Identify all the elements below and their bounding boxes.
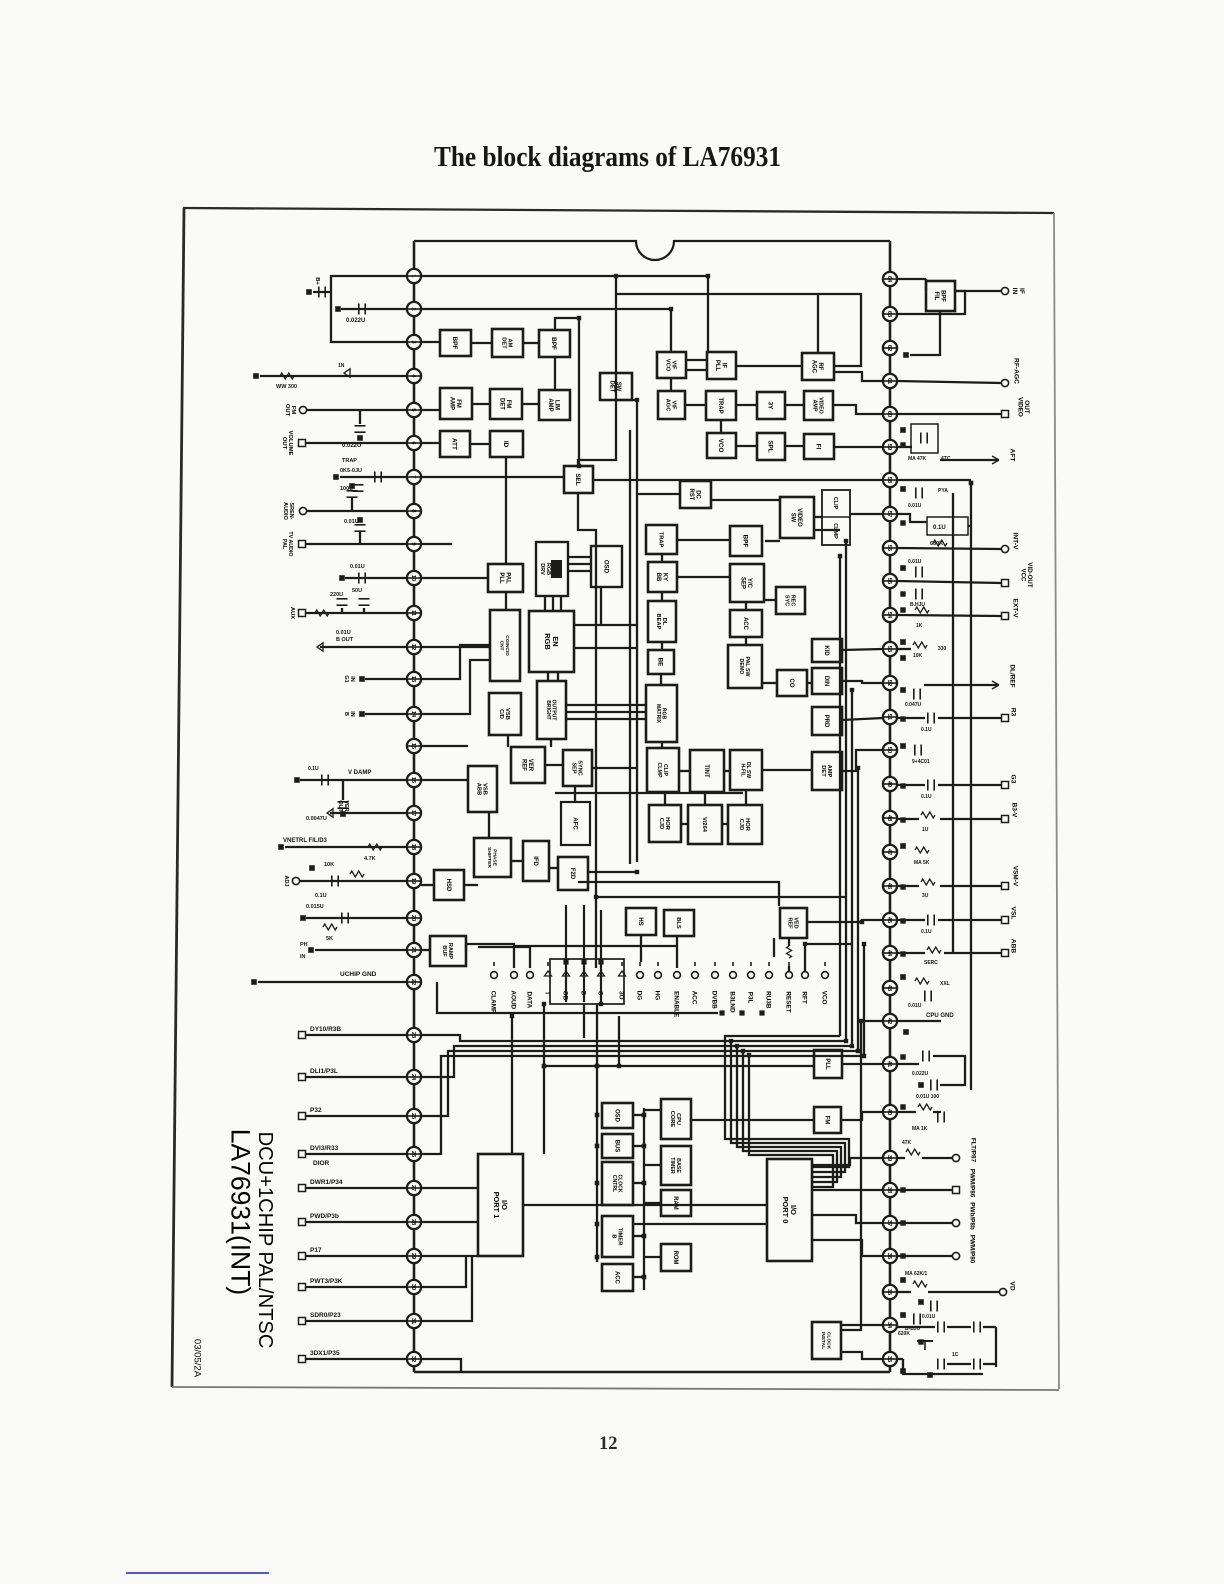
- wire: [814, 516, 822, 518]
- wire: [300, 880, 407, 882]
- wire: [925, 279, 927, 291]
- svg-text:V/264: V/264: [701, 817, 707, 833]
- pin 41: [883, 1057, 897, 1071]
- terminal open-square: [299, 1318, 306, 1325]
- wire: [313, 291, 331, 293]
- IC bottom edge: [414, 1371, 890, 1374]
- svg-text:VSM-V: VSM-V: [1012, 866, 1019, 887]
- svg-text:KID: KID: [823, 645, 829, 656]
- block BUS: [602, 1134, 633, 1158]
- terminal square: [595, 1064, 599, 1068]
- svg-text:0.1U: 0.1U: [315, 893, 327, 899]
- terminal square: [340, 576, 345, 581]
- svg-text:AGC: AGC: [664, 399, 670, 412]
- wire: [745, 637, 747, 645]
- svg-text:ABB: ABB: [475, 783, 481, 795]
- wire: [679, 770, 690, 772]
- pin stub: [407, 846, 421, 848]
- terminal circle: [511, 972, 518, 979]
- wire: [345, 577, 407, 579]
- svg-text:MA 62K/1: MA 62K/1: [905, 1271, 928, 1277]
- pin stub: [883, 1063, 897, 1065]
- resistor: [368, 844, 382, 850]
- terminal square: [901, 1278, 906, 1283]
- terminal square: [336, 307, 341, 312]
- svg-text:KY: KY: [662, 573, 668, 581]
- svg-text:PAL: PAL: [281, 539, 287, 550]
- wire: [897, 1111, 916, 1113]
- svg-text:TRAP: TRAP: [717, 397, 723, 413]
- arrow: [317, 643, 323, 651]
- terminal stub: [694, 962, 696, 966]
- capacitor: [937, 1322, 939, 1333]
- wire: [633, 1145, 644, 1147]
- svg-text:ATT: ATT: [451, 438, 458, 450]
- terminal open-square: [299, 1219, 306, 1226]
- svg-text:REF: REF: [521, 759, 527, 771]
- wire: [615, 276, 617, 400]
- capacitor: [937, 1112, 939, 1123]
- svg-text:BUF: BUF: [441, 945, 447, 957]
- pin 45: [883, 913, 897, 927]
- wire: [505, 457, 507, 564]
- pin 6: [407, 436, 421, 450]
- wire: [952, 493, 954, 953]
- pin stub: [407, 1255, 421, 1257]
- pin stub: [407, 713, 421, 715]
- svg-text:100U: 100U: [340, 486, 353, 492]
- pin 62: [883, 341, 897, 355]
- terminal circle: [527, 972, 534, 979]
- terminal square: [860, 920, 863, 923]
- block ATT: [440, 431, 470, 457]
- terminal circle: [1001, 545, 1008, 552]
- block EN RGB: [529, 611, 574, 672]
- pin 5: [407, 403, 421, 417]
- wire: [633, 1182, 644, 1184]
- wire: [592, 767, 637, 769]
- svg-text:CJD: CJD: [658, 818, 664, 829]
- svg-text:Y/C: Y/C: [746, 578, 752, 589]
- block PRD: [812, 707, 842, 735]
- svg-text:AFC: AFC: [571, 817, 578, 830]
- svg-text:DRV: DRV: [539, 563, 545, 575]
- block CLOCK CNTRL: [602, 1162, 633, 1205]
- pin stub: [883, 682, 897, 684]
- svg-text:PWb/P8b: PWb/P8b: [969, 1202, 976, 1230]
- capacitor: [973, 1359, 975, 1370]
- pin stub: [407, 409, 421, 411]
- svg-text:CLMP: CLMP: [832, 523, 838, 539]
- arrow: [545, 971, 552, 976]
- svg-text:PORT 1: PORT 1: [492, 1192, 501, 1219]
- wire: [814, 529, 840, 531]
- pin 39: [883, 1151, 897, 1165]
- wire: [421, 884, 434, 886]
- pin63 to IF IN node: [897, 291, 965, 314]
- wire: [629, 430, 631, 864]
- svg-text:ADJ: ADJ: [283, 875, 289, 886]
- svg-text:0.01U 100: 0.01U 100: [916, 1094, 939, 1100]
- terminal square: [928, 1373, 933, 1378]
- pin 22: [407, 975, 421, 989]
- terminal square: [614, 274, 617, 277]
- terminal square: [334, 475, 339, 480]
- capacitor: [930, 1301, 932, 1312]
- block OSD2: [591, 546, 622, 587]
- wire SW DET to SEL: [578, 400, 616, 466]
- terminal square: [901, 885, 905, 889]
- svg-text:0.1U: 0.1U: [308, 766, 319, 772]
- wire: [633, 1276, 644, 1278]
- terminal square: [617, 1064, 620, 1067]
- block VIF VCO: [657, 352, 686, 378]
- pin stub: [407, 1320, 421, 1322]
- wire: [842, 649, 883, 650]
- svg-text:RFT: RFT: [801, 991, 808, 1003]
- pin 60: [883, 407, 897, 421]
- pin stub: [407, 577, 421, 579]
- wire: [342, 780, 344, 800]
- svg-text:VCO: VCO: [821, 991, 828, 1005]
- svg-text:DET: DET: [820, 765, 826, 777]
- svg-text:SEP: SEP: [571, 762, 577, 773]
- terminal circle: [491, 972, 498, 979]
- wire: [566, 711, 646, 713]
- block ACC: [602, 1264, 633, 1291]
- IC right rail: [889, 241, 892, 1372]
- terminal square: [901, 1221, 905, 1225]
- svg-text:RGB: RGB: [543, 633, 552, 650]
- wire loop y294: [616, 294, 861, 366]
- pin stub: [883, 1020, 897, 1022]
- block ID: [490, 431, 523, 457]
- pin 26: [407, 1147, 421, 1161]
- svg-text:BPF: BPF: [940, 290, 946, 302]
- block VER REF: [511, 747, 545, 783]
- wire: [922, 1157, 952, 1159]
- pin stub: [407, 1221, 421, 1223]
- wire: [285, 846, 407, 848]
- svg-text:12: 12: [599, 1434, 618, 1454]
- bus hooks to I/O PORT 0: [731, 1041, 846, 1172]
- wire: [568, 556, 591, 558]
- pin 44: [883, 946, 897, 960]
- svg-text:DY10/R3B: DY10/R3B: [310, 1026, 341, 1033]
- terminal square: [901, 1105, 905, 1109]
- svg-text:VOLUME: VOLUME: [287, 431, 293, 456]
- svg-text:TIMER: TIMER: [669, 1157, 675, 1174]
- block SW DET: [600, 373, 632, 400]
- wire: [785, 404, 804, 406]
- block CLIP CLMP: [647, 748, 679, 792]
- terminal square: [599, 1002, 602, 1005]
- svg-text:ABB: ABB: [1010, 939, 1017, 954]
- block RAMP BUF: [430, 936, 466, 966]
- wire: [745, 790, 747, 805]
- terminal stub: [565, 958, 567, 966]
- gnd trace line: [437, 982, 718, 1013]
- svg-text:DIN: DIN: [823, 676, 829, 686]
- terminal open-square: [299, 1032, 306, 1039]
- wire: [661, 642, 663, 650]
- block TRAP: [706, 391, 736, 420]
- block F2D: [558, 857, 588, 890]
- svg-text:ID: ID: [502, 441, 509, 448]
- svg-text:PH: PH: [300, 942, 308, 948]
- svg-text:FM: FM: [290, 406, 296, 415]
- terminal square: [595, 1181, 599, 1185]
- svg-text:PWT3/P3K: PWT3/P3K: [310, 1278, 343, 1285]
- wire: [686, 369, 707, 371]
- pin stub: [883, 513, 897, 515]
- wire: [940, 459, 999, 461]
- pin 8: [407, 504, 421, 518]
- resistor: [913, 642, 927, 648]
- pin 35: [883, 1285, 897, 1299]
- pin stub: [407, 510, 421, 512]
- svg-text:DIOR: DIOR: [313, 1160, 330, 1167]
- pin 53: [883, 642, 897, 656]
- wire: [788, 966, 790, 971]
- pin 36: [883, 1249, 897, 1263]
- pin stub: [883, 1189, 897, 1191]
- terminal square: [844, 539, 847, 542]
- terminal square: [901, 1188, 905, 1192]
- terminal square: [838, 554, 841, 557]
- wire: [897, 648, 911, 650]
- wire: [691, 1119, 814, 1121]
- terminal square: [577, 316, 580, 319]
- wire pin14 to COINCID: [421, 660, 490, 714]
- capacitor: [922, 1051, 924, 1062]
- svg-text:0K5-0JU: 0K5-0JU: [340, 468, 362, 474]
- arrow: [327, 809, 333, 817]
- wire: [765, 540, 780, 542]
- svg-text:BRIGHT: BRIGHT: [545, 700, 551, 720]
- pin stub: [883, 987, 897, 989]
- wire: [544, 596, 546, 611]
- svg-text:The block diagrams of LA76931: The block diagrams of LA76931: [434, 142, 781, 173]
- svg-text:0.01U: 0.01U: [922, 1314, 936, 1320]
- pin 38: [883, 1183, 897, 1197]
- pin 15: [407, 739, 421, 753]
- capacitor: [920, 433, 922, 444]
- wire: [633, 1223, 767, 1225]
- terminal circle: [822, 972, 829, 979]
- svg-text:FLT/P87: FLT/P87: [970, 1138, 977, 1163]
- pin 10: [407, 571, 421, 585]
- wire: [306, 612, 407, 614]
- block KY BB: [648, 562, 677, 592]
- svg-text:0.01U: 0.01U: [344, 519, 359, 525]
- svg-text:VNETRL FIL/D3: VNETRL FIL/D3: [283, 838, 328, 844]
- wire BPF loop to SEL: [555, 318, 579, 466]
- block HOR CJD: [728, 805, 762, 844]
- wire: [897, 446, 912, 448]
- trunk vertical x637: [616, 400, 637, 862]
- arrow: [563, 971, 570, 976]
- pin stub: [407, 880, 421, 882]
- svg-text:ROM: ROM: [672, 1251, 678, 1265]
- block BE: [648, 650, 674, 674]
- wire: [897, 615, 1001, 616]
- resistor: [927, 947, 941, 953]
- pin 42: [883, 1014, 897, 1028]
- pin 49: [883, 777, 897, 791]
- wire: [574, 786, 576, 802]
- svg-text:0.1U: 0.1U: [921, 929, 932, 935]
- terminal square: [510, 1014, 513, 1017]
- svg-text:0.022U: 0.022U: [346, 318, 365, 324]
- terminal square: [735, 1044, 738, 1047]
- terminal square: [642, 1181, 646, 1185]
- pin stub: [883, 380, 897, 382]
- svg-text:LA76931(INT): LA76931(INT): [225, 1129, 255, 1295]
- wire: [505, 592, 507, 610]
- svg-text:P32: P32: [310, 1107, 322, 1114]
- wire RF AGC to pin 61: [834, 372, 883, 381]
- terminal square: [901, 744, 906, 749]
- block FM DET: [490, 389, 522, 419]
- svg-text:SDR0/P23: SDR0/P23: [310, 1312, 341, 1319]
- svg-text:B3LND: B3LND: [729, 991, 736, 1013]
- terminal open-square: [299, 440, 306, 447]
- svg-text:B: B: [610, 1234, 616, 1238]
- svg-text:WW 300: WW 300: [276, 384, 297, 390]
- wire: [839, 556, 841, 1036]
- terminal circle: [292, 877, 299, 884]
- pin 55: [883, 574, 897, 588]
- pin stub: [883, 547, 897, 549]
- pin stub: [407, 375, 421, 377]
- wire: [720, 420, 722, 433]
- svg-text:BPF: BPF: [742, 535, 749, 548]
- wire: [938, 784, 1001, 786]
- capacitor: [937, 1359, 939, 1370]
- wire: [306, 1187, 407, 1189]
- wire: [633, 1235, 644, 1237]
- wire: [845, 541, 847, 1041]
- trunk vertical x596: [578, 493, 596, 968]
- wire: [897, 381, 1001, 383]
- pin 47: [883, 845, 897, 859]
- block BLS: [664, 910, 694, 936]
- terminal stub: [732, 962, 734, 966]
- wire: [421, 341, 440, 343]
- wire: [924, 684, 999, 686]
- terminal circle: [786, 972, 793, 979]
- svg-text:HOR: HOR: [744, 818, 750, 832]
- IC package outline top edge with notch: [414, 241, 890, 260]
- wire: [306, 1115, 407, 1117]
- block SEL: [564, 466, 593, 493]
- svg-text:AMP: AMP: [812, 400, 818, 412]
- pin stub: [407, 981, 421, 983]
- block PLL: [814, 1050, 842, 1078]
- pin 19: [407, 874, 421, 888]
- terminal stub: [547, 962, 549, 966]
- connector box: [550, 959, 624, 1004]
- wire: [955, 290, 1001, 292]
- terminal open-square: [1002, 883, 1009, 890]
- wire: [421, 949, 430, 951]
- block I/O PORT 1: [478, 1154, 523, 1256]
- terminal circle: [952, 1154, 959, 1161]
- terminal circle: [655, 972, 662, 979]
- wire: [897, 1291, 911, 1293]
- terminal stub: [493, 962, 495, 966]
- pin stub: [883, 648, 897, 650]
- arrow: [598, 971, 605, 976]
- svg-text:DET: DET: [500, 337, 506, 349]
- block VSB ABB: [468, 766, 497, 812]
- capacitor: [374, 472, 376, 483]
- wire: [421, 442, 440, 444]
- svg-text:IF: IF: [1018, 288, 1025, 294]
- wire: [704, 792, 706, 805]
- resistor: [918, 1104, 932, 1110]
- pin 20: [407, 911, 421, 925]
- terminal square: [862, 942, 865, 945]
- pin 57: [883, 507, 897, 521]
- terminal open-square: [299, 1356, 306, 1363]
- resistor: [933, 540, 947, 546]
- svg-text:HSD: HSD: [445, 879, 451, 892]
- terminal square: [642, 1234, 646, 1238]
- wire: [773, 938, 775, 957]
- terminal open-square: [1002, 613, 1009, 620]
- pin 56: [883, 541, 897, 555]
- wire: [928, 1291, 999, 1293]
- svg-text:AOUD: AOUD: [510, 990, 517, 1009]
- wire: [983, 1363, 996, 1365]
- terminal square: [901, 656, 906, 661]
- pin 9: [407, 537, 421, 551]
- wire: [897, 1189, 952, 1191]
- svg-text:0.1U: 0.1U: [921, 794, 932, 800]
- terminal square: [542, 1002, 545, 1005]
- terminal square: [901, 443, 905, 447]
- wire: [644, 1202, 661, 1204]
- pin 59: [883, 440, 897, 454]
- terminal square: [635, 870, 638, 873]
- terminal stub: [750, 962, 752, 966]
- svg-text:CLIP: CLIP: [832, 497, 838, 510]
- svg-text:FM: FM: [505, 400, 511, 409]
- terminal square: [542, 1064, 546, 1068]
- svg-text:RF: RF: [817, 363, 823, 371]
- svg-text:TINT: TINT: [703, 764, 709, 778]
- block COINCID CNT: [490, 610, 520, 681]
- terminal square: [741, 1049, 744, 1052]
- wire: [633, 1114, 644, 1116]
- BPF FIL loop: [910, 311, 940, 355]
- terminal square: [360, 677, 365, 682]
- block PHASE SHIFTER: [474, 838, 511, 877]
- terminal open-square: [1002, 917, 1009, 924]
- wire: [341, 308, 407, 310]
- svg-text:SERC: SERC: [924, 960, 938, 966]
- block OSD: [602, 1103, 633, 1128]
- terminal square: [729, 1039, 732, 1042]
- svg-text:10K: 10K: [913, 653, 923, 659]
- wire: [359, 410, 361, 424]
- outer border top: [183, 208, 1054, 213]
- svg-text:10K: 10K: [324, 862, 334, 868]
- bus from pin25: [421, 1051, 743, 1116]
- wire: [421, 409, 440, 411]
